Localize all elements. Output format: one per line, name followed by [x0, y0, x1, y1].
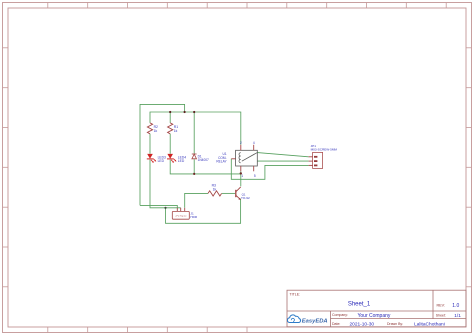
wire: x140 to module left pin — [140, 205, 177, 207]
connector J1 HDR (PIR module) — [172, 208, 198, 219]
transistor Q1 TO-92 — [236, 187, 250, 200]
node: relay pin1 / collector — [240, 172, 242, 174]
svg-text:2021-10-30: 2021-10-30 — [350, 321, 375, 327]
resistor R2 — [147, 123, 152, 134]
node: outer rail drop / +V rail junction — [184, 111, 186, 113]
svg-text:1k: 1k — [174, 129, 178, 133]
svg-text:RELAY: RELAY — [216, 160, 227, 164]
wire: R1 top branch — [169, 112, 171, 123]
svg-text:EasyEDA: EasyEDA — [302, 319, 328, 325]
LED LED4 — [167, 154, 186, 163]
svg-text:1: 1 — [241, 174, 243, 178]
svg-text:4: 4 — [253, 141, 255, 145]
wire: relay NO to JP1 pin1 — [257, 153, 308, 157]
svg-text:1k: 1k — [213, 187, 217, 191]
wire: R3 to Q1 base — [222, 192, 235, 194]
svg-text:HDR: HDR — [190, 215, 197, 219]
wire: R2 to LED3 — [149, 134, 151, 154]
svg-text:1N4007: 1N4007 — [198, 158, 209, 162]
svg-text:Date:: Date: — [332, 322, 340, 326]
svg-text:REV:: REV: — [437, 304, 445, 308]
svg-text:TO-92: TO-92 — [241, 196, 250, 200]
wire: module right pin to R3 — [185, 193, 208, 207]
wire: relay COM to JP1 pin2 — [257, 160, 308, 162]
wire: ground stub down to bottom rail — [166, 199, 241, 224]
relay U1 COM-RELAY — [216, 141, 257, 178]
node: D1 / +V rail junction — [193, 111, 195, 113]
resistor R1 — [168, 123, 173, 134]
node: ground junction — [164, 207, 166, 209]
svg-text:5: 5 — [254, 174, 256, 178]
svg-text:TITLE:: TITLE: — [290, 292, 301, 296]
svg-text:Sheet_1: Sheet_1 — [348, 301, 371, 307]
EasyEDA logo — [287, 315, 327, 325]
wire: LED4 cathode to coil-low rail — [170, 160, 241, 174]
svg-text:1.0: 1.0 — [452, 303, 459, 309]
svg-text:Drawn By:: Drawn By: — [387, 322, 403, 326]
svg-text:LalitaChothani: LalitaChothani — [414, 321, 445, 327]
node: R1 / +V rail junction — [169, 111, 171, 113]
svg-text:+Pw Trg out: +Pw Trg out — [175, 215, 187, 218]
node: D1 / coil-low rail — [193, 173, 195, 175]
LED LED3 — [147, 154, 166, 163]
wire: relay NC loop to JP1 pin3 — [231, 159, 308, 180]
wire: +V outer top rail — [140, 104, 185, 205]
svg-text:2: 2 — [240, 141, 242, 145]
svg-text:M03-SCREW-5MM: M03-SCREW-5MM — [311, 148, 338, 152]
wire: inner +V rail — [150, 112, 241, 145]
resistor R3 — [208, 191, 222, 196]
wire: LED3 cathode down to module middle pin — [150, 160, 181, 208]
svg-text:Company:: Company: — [332, 313, 348, 317]
diode D1 1N4007 — [192, 154, 197, 159]
wire: D1 bottom — [193, 159, 195, 174]
title block — [287, 290, 466, 327]
coil — [239, 153, 241, 163]
wire: D1 top branch — [193, 112, 195, 154]
wire: R1 to LED4 — [169, 134, 171, 154]
svg-text:1k: 1k — [154, 129, 158, 133]
wire: relay pin1 to collector — [240, 171, 242, 186]
screw terminal JP1 M03-SCREW-5MM — [309, 144, 338, 169]
svg-text:Sheet:: Sheet: — [436, 313, 446, 317]
svg-text:LED: LED — [178, 159, 185, 163]
svg-text:1/1: 1/1 — [454, 313, 461, 318]
switch arm — [242, 153, 257, 162]
pins — [231, 145, 253, 172]
svg-text:Your Company: Your Company — [358, 313, 391, 319]
svg-text:LED: LED — [158, 159, 165, 163]
